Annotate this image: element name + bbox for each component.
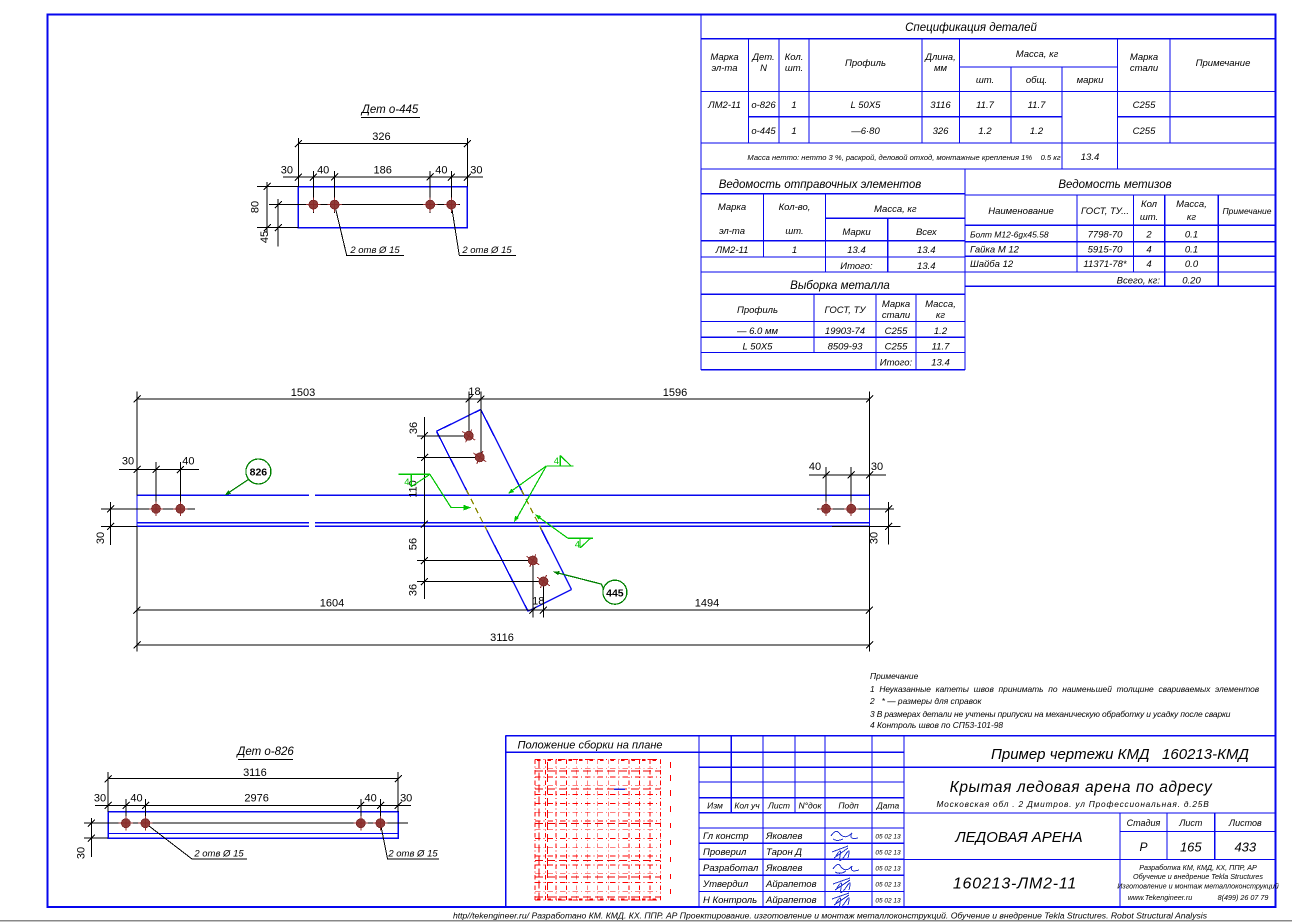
svg-text:ГОСТ, ТУ...: ГОСТ, ТУ... <box>1081 206 1129 217</box>
svg-text:4: 4 <box>404 477 409 488</box>
svg-text:1494: 1494 <box>695 598 719 610</box>
svg-text:марки: марки <box>1077 75 1105 86</box>
svg-text:Всего, кг:: Всего, кг: <box>1117 276 1161 287</box>
svg-text:С255: С255 <box>1133 126 1156 137</box>
svg-text:2976: 2976 <box>244 793 268 805</box>
svg-text:8509-93: 8509-93 <box>828 342 864 353</box>
svg-text:Обучение и внедрение Tekla St: Обучение и внедрение Tekla Structures <box>1133 872 1263 881</box>
svg-text:13.4: 13.4 <box>1081 152 1100 163</box>
svg-text:4 Контроль швов по СП53-101-9: 4 Контроль швов по СП53-101-98 <box>870 720 1003 730</box>
svg-text:2 отв Ø 15: 2 отв Ø 15 <box>349 245 400 256</box>
svg-text:13.4: 13.4 <box>917 245 936 256</box>
svg-text:1596: 1596 <box>663 387 687 399</box>
svg-text:Болт М12-6gх45.58: Болт М12-6gх45.58 <box>970 230 1049 240</box>
svg-text:Р: Р <box>1139 840 1147 854</box>
svg-text:Лист: Лист <box>1178 818 1203 828</box>
svg-text:36: 36 <box>408 422 420 434</box>
svg-text:стали: стали <box>882 310 911 321</box>
svg-text:40: 40 <box>130 793 142 805</box>
svg-text:N°док: N°док <box>799 801 823 811</box>
svg-text:19903-74: 19903-74 <box>825 326 865 337</box>
svg-text:Масса, кг: Масса, кг <box>874 204 917 215</box>
svg-text:Масса, кг: Масса, кг <box>1016 49 1059 60</box>
svg-text:13.4: 13.4 <box>917 261 936 272</box>
svg-text:30: 30 <box>95 532 107 544</box>
svg-text:80: 80 <box>250 201 262 213</box>
svg-text:3116: 3116 <box>243 767 267 779</box>
svg-text:Гайка М 12: Гайка М 12 <box>970 245 1020 256</box>
svg-text:11.7: 11.7 <box>1028 100 1047 111</box>
svg-text:о-826: о-826 <box>751 100 776 111</box>
svg-text:3116: 3116 <box>490 632 514 644</box>
svg-text:Дата: Дата <box>876 801 900 811</box>
svg-text:56: 56 <box>408 538 420 550</box>
svg-text:— 6.0 мм: — 6.0 мм <box>736 326 778 337</box>
svg-text:40: 40 <box>809 461 821 473</box>
svg-text:4: 4 <box>575 539 580 550</box>
svg-text:L 50X5: L 50X5 <box>743 342 774 353</box>
svg-text:30: 30 <box>869 532 881 544</box>
svg-text:0.20: 0.20 <box>1182 276 1201 287</box>
svg-text:стали: стали <box>1130 63 1159 74</box>
svg-text:общ.: общ. <box>1026 75 1047 86</box>
svg-text:1 Неуказанные катеты швов при: 1 Неуказанные катеты швов принимать по н… <box>870 684 1260 694</box>
svg-text:шт.: шт. <box>976 75 994 86</box>
svg-text:Положение сборки на плане: Положение сборки на плане <box>517 740 662 752</box>
svg-text:Шайба 12: Шайба 12 <box>970 259 1014 270</box>
svg-text:Изготовление и монтаж металлок: Изготовление и монтаж металлоконструкций <box>1117 882 1279 891</box>
svg-text:эл-та: эл-та <box>719 226 745 237</box>
svg-text:Стадия: Стадия <box>1127 818 1161 828</box>
svg-text:http//tekengineer.ru/ Разрабо: http//tekengineer.ru/ Разработано КМ. КМ… <box>453 911 1208 921</box>
svg-text:Разработка КМ, КМД, КХ, ППР, А: Разработка КМ, КМД, КХ, ППР, АР <box>1139 863 1257 872</box>
svg-text:05 02 13: 05 02 13 <box>875 866 901 873</box>
svg-text:эл-та: эл-та <box>711 63 737 74</box>
svg-text:18: 18 <box>468 386 480 398</box>
svg-text:Дет о-826: Дет о-826 <box>235 746 294 758</box>
svg-text:8(499) 26 07 79: 8(499) 26 07 79 <box>1218 893 1269 902</box>
svg-text:Масса нетто: нетто 3 %, раскро: Масса нетто: нетто 3 %, раскрой, деловой… <box>747 153 1060 162</box>
svg-text:шт.: шт. <box>1140 212 1158 223</box>
svg-text:Профиль: Профиль <box>737 305 778 316</box>
svg-text:Масса,: Масса, <box>925 299 956 310</box>
svg-text:4: 4 <box>1146 259 1151 270</box>
svg-text:30: 30 <box>400 793 412 805</box>
svg-text:Кол-во,: Кол-во, <box>779 202 811 213</box>
svg-text:Примечание: Примечание <box>1196 58 1251 69</box>
svg-text:13.4: 13.4 <box>847 245 866 256</box>
svg-text:160213-ЛМ2-11: 160213-ЛМ2-11 <box>953 876 1077 893</box>
svg-text:2 отв Ø 15: 2 отв Ø 15 <box>387 849 438 860</box>
svg-text:Разработал: Разработал <box>703 863 759 874</box>
svg-text:45: 45 <box>259 231 271 243</box>
svg-text:о-445: о-445 <box>751 126 776 137</box>
svg-text:Дет о-445: Дет о-445 <box>360 104 419 116</box>
svg-text:Московская обл . 2 Дмитров. у: Московская обл . 2 Дмитров. ул Профессио… <box>936 799 1209 809</box>
svg-text:Марка: Марка <box>882 299 910 310</box>
svg-text:Марки: Марки <box>842 227 871 238</box>
svg-text:40: 40 <box>182 455 194 467</box>
svg-text:ЛМ2-11: ЛМ2-11 <box>707 100 741 111</box>
svg-text:1503: 1503 <box>291 387 315 399</box>
svg-text:40: 40 <box>317 165 329 177</box>
svg-text:2 * — размеры для справок: 2 * — размеры для справок <box>869 696 983 706</box>
svg-text:—6·80: —6·80 <box>850 126 880 137</box>
svg-text:Лист: Лист <box>767 801 790 811</box>
svg-text:1: 1 <box>791 126 796 137</box>
svg-text:05 02 13: 05 02 13 <box>875 834 901 841</box>
svg-text:ЛМ2-11: ЛМ2-11 <box>715 245 749 256</box>
svg-text:Изм: Изм <box>707 801 723 811</box>
svg-text:С255: С255 <box>885 326 908 337</box>
svg-text:30: 30 <box>122 455 134 467</box>
svg-text:2 отв Ø 15: 2 отв Ø 15 <box>193 849 244 860</box>
svg-text:326: 326 <box>372 131 390 143</box>
svg-text:Ведомость метизов: Ведомость метизов <box>1058 179 1171 191</box>
svg-text:1.2: 1.2 <box>934 326 948 337</box>
svg-text:0.1: 0.1 <box>1185 230 1198 241</box>
svg-text:11.7: 11.7 <box>932 342 951 353</box>
svg-text:шт.: шт. <box>785 63 803 74</box>
svg-text:Утвердил: Утвердил <box>702 879 749 890</box>
svg-text:ГОСТ, ТУ: ГОСТ, ТУ <box>825 305 867 316</box>
svg-text:05 02 13: 05 02 13 <box>875 850 901 857</box>
svg-text:05 02 13: 05 02 13 <box>875 898 901 905</box>
svg-text:Яковлев: Яковлев <box>765 863 803 874</box>
svg-text:13.4: 13.4 <box>931 358 950 369</box>
svg-text:30: 30 <box>871 461 883 473</box>
svg-text:Гл констр: Гл констр <box>703 831 749 842</box>
svg-text:0.0: 0.0 <box>1185 259 1199 270</box>
svg-text:0.1: 0.1 <box>1185 245 1198 256</box>
svg-text:шт.: шт. <box>785 226 803 237</box>
svg-text:165: 165 <box>1180 840 1202 855</box>
svg-text:Проверил: Проверил <box>703 847 747 858</box>
svg-text:30: 30 <box>94 793 106 805</box>
svg-text:Профиль: Профиль <box>845 58 886 69</box>
svg-text:Кол.: Кол. <box>785 52 804 63</box>
svg-text:11371-78*: 11371-78* <box>1083 259 1126 270</box>
svg-text:мм: мм <box>934 63 948 74</box>
svg-text:Масса,: Масса, <box>1176 199 1207 210</box>
svg-text:Листов: Листов <box>1228 818 1262 828</box>
svg-text:3116: 3116 <box>930 100 951 111</box>
svg-text:1: 1 <box>791 100 796 111</box>
svg-text:кг: кг <box>1187 212 1196 223</box>
svg-text:40: 40 <box>364 793 376 805</box>
svg-text:826: 826 <box>250 467 268 479</box>
svg-text:Длина,: Длина, <box>924 52 955 63</box>
svg-text:www.Tekengineer.ru: www.Tekengineer.ru <box>1128 893 1193 902</box>
svg-text:1: 1 <box>792 245 797 256</box>
svg-text:1.2: 1.2 <box>978 126 992 137</box>
svg-text:36: 36 <box>408 584 420 596</box>
svg-text:4: 4 <box>554 456 559 467</box>
svg-text:326: 326 <box>933 126 950 137</box>
svg-text:7798-70: 7798-70 <box>1088 230 1124 241</box>
svg-text:Яковлев: Яковлев <box>765 831 803 842</box>
svg-text:Примечание: Примечание <box>1223 206 1272 216</box>
svg-text:4: 4 <box>1146 245 1151 256</box>
svg-text:Айрапетов: Айрапетов <box>765 895 817 906</box>
svg-text:Всех: Всех <box>916 227 938 238</box>
svg-text:С255: С255 <box>885 342 908 353</box>
svg-text:Ведомость отправочных элементо: Ведомость отправочных элементов <box>719 179 922 191</box>
svg-text:Итого:: Итого: <box>840 261 873 272</box>
svg-text:Примечание: Примечание <box>870 671 919 681</box>
svg-text:1604: 1604 <box>320 598 344 610</box>
svg-text:ЛЕДОВАЯ АРЕНА: ЛЕДОВАЯ АРЕНА <box>954 829 1082 846</box>
svg-text:30: 30 <box>281 165 293 177</box>
svg-text:N: N <box>760 63 767 74</box>
svg-text:30: 30 <box>76 847 88 859</box>
svg-text:Пример чертежи КМД 160213-КМ: Пример чертежи КМД 160213-КМД <box>991 746 1249 763</box>
svg-text:Дет.: Дет. <box>751 52 774 63</box>
svg-text:Н Контроль: Н Контроль <box>703 895 757 906</box>
svg-text:18: 18 <box>532 596 544 608</box>
svg-text:2: 2 <box>1145 230 1152 241</box>
svg-text:445: 445 <box>606 587 624 599</box>
svg-text:Марка: Марка <box>710 52 738 63</box>
svg-text:Кол уч: Кол уч <box>734 801 760 811</box>
svg-text:Марка: Марка <box>1130 52 1158 63</box>
svg-text:Спецификация деталей: Спецификация деталей <box>905 22 1037 34</box>
svg-text:Наименование: Наименование <box>988 206 1054 217</box>
svg-text:40: 40 <box>435 165 447 177</box>
svg-text:2 отв Ø 15: 2 отв Ø 15 <box>461 245 512 256</box>
svg-text:11.7: 11.7 <box>976 100 995 111</box>
svg-text:Марка: Марка <box>718 202 746 213</box>
svg-text:Айрапетов: Айрапетов <box>765 879 817 890</box>
svg-text:С255: С255 <box>1133 100 1156 111</box>
svg-text:30: 30 <box>470 165 482 177</box>
svg-text:Тарон Д: Тарон Д <box>766 847 802 858</box>
svg-text:Подп: Подп <box>838 801 859 811</box>
svg-text:Итого:: Итого: <box>880 358 913 369</box>
svg-text:5915-70: 5915-70 <box>1088 245 1124 256</box>
svg-text:3 В размерах детали не учтены: 3 В размерах детали не учтены припуски н… <box>870 709 1231 719</box>
svg-text:L 50X5: L 50X5 <box>851 100 882 111</box>
svg-text:186: 186 <box>374 165 392 177</box>
svg-text:Кол: Кол <box>1141 199 1158 210</box>
svg-text:Выборка металла: Выборка металла <box>790 280 890 292</box>
svg-text:Крытая ледовая арена по адресу: Крытая ледовая арена по адресу <box>950 779 1213 796</box>
svg-text:433: 433 <box>1234 840 1256 855</box>
svg-text:1.2: 1.2 <box>1030 126 1044 137</box>
svg-text:05 02 13: 05 02 13 <box>875 882 901 889</box>
svg-text:кг: кг <box>936 310 945 321</box>
